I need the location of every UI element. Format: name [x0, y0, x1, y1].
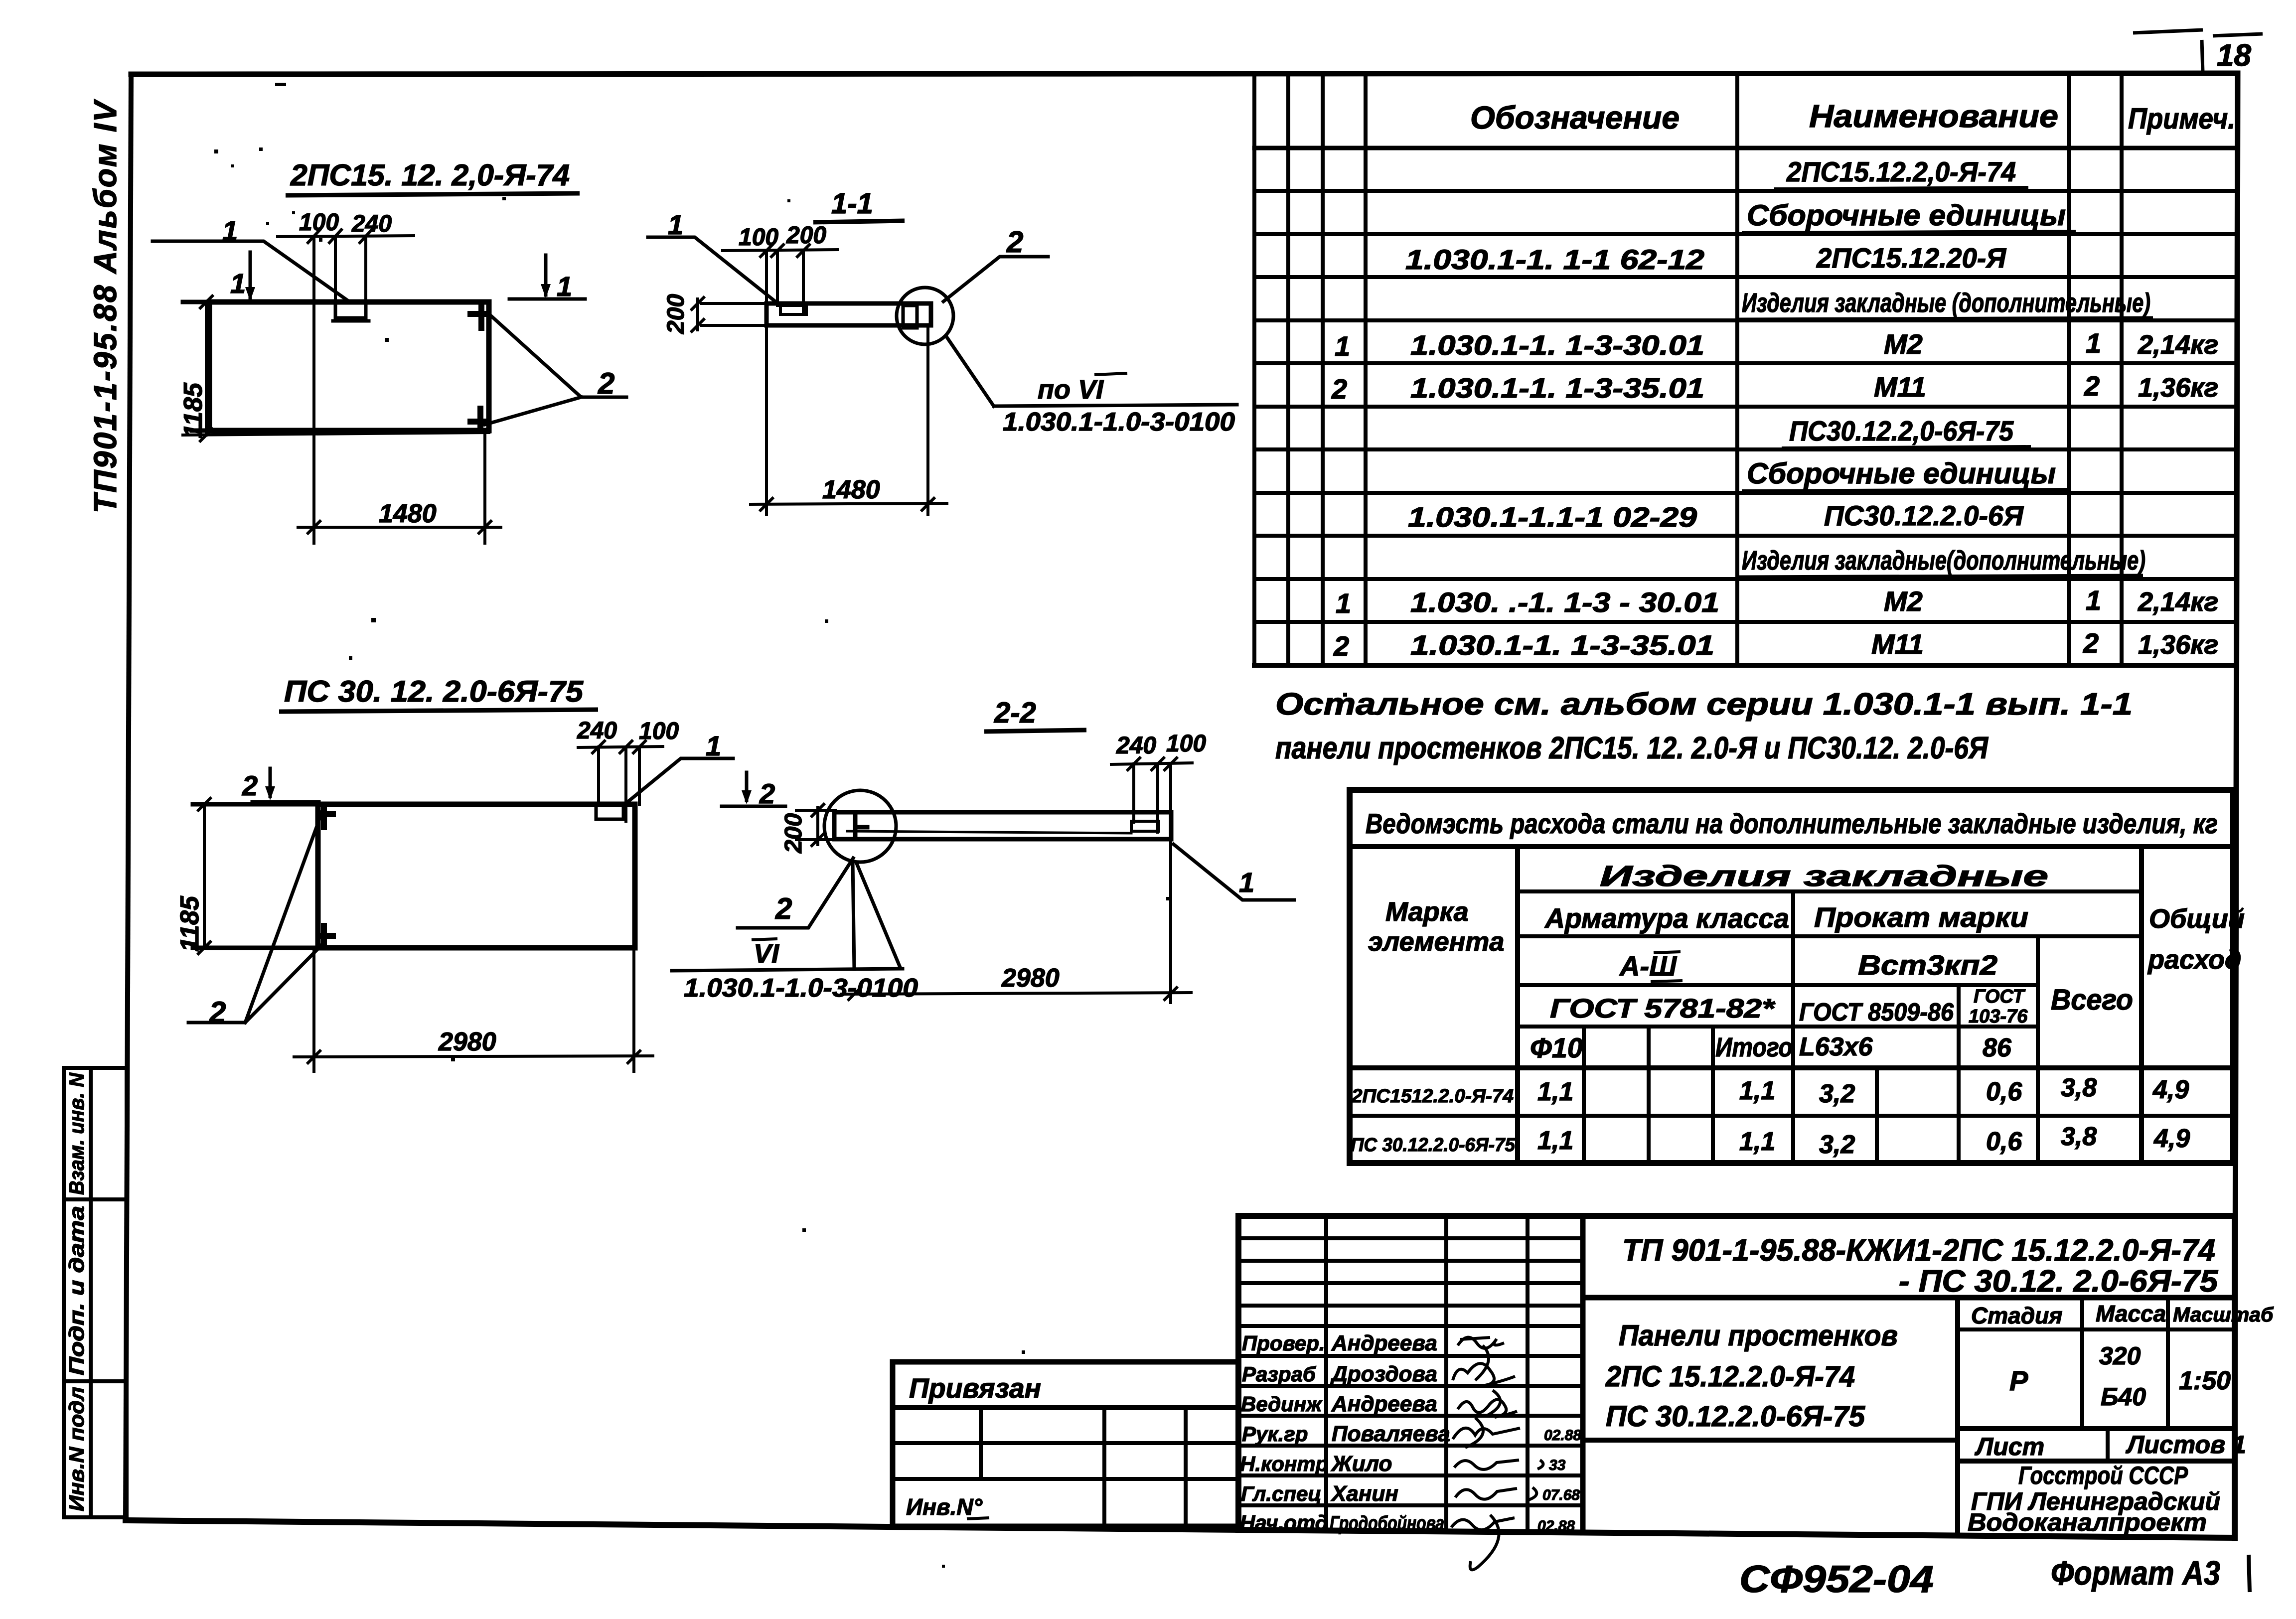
svg-text:1: 1 — [222, 215, 238, 246]
svg-text:Подп. и дата: Подп. и дата — [65, 1206, 88, 1375]
left margin stamp strip — [64, 1068, 127, 1517]
svg-text:Взам. инв. N: Взам. инв. N — [65, 1072, 88, 1195]
svg-text:1.030.1-1.0-3-0100: 1.030.1-1.0-3-0100 — [1003, 408, 1235, 437]
slab outline — [766, 303, 931, 325]
svg-text:Масштаб: Масштаб — [2173, 1303, 2274, 1326]
svg-text:1.030.1-1.0-3-0100: 1.030.1-1.0-3-0100 — [684, 974, 918, 1003]
leader to item 2 — [738, 858, 853, 928]
svg-text:1: 1 — [668, 209, 683, 240]
svg-text:Н.контр: Н.контр — [1240, 1452, 1328, 1475]
svg-text:240: 240 — [1116, 733, 1156, 759]
svg-text:Сборочные единицы: Сборочные единицы — [1747, 199, 2066, 232]
svg-text:1: 1 — [1239, 867, 1254, 898]
svg-text:М11: М11 — [1874, 371, 1926, 403]
svg-text:L63x6: L63x6 — [1799, 1032, 1873, 1061]
privyazan outer — [893, 1362, 1238, 1526]
svg-text:Обозначение: Обозначение — [1470, 100, 1680, 136]
svg-text:100: 100 — [739, 224, 778, 251]
svg-text:Листов 1: Листов 1 — [2126, 1431, 2246, 1459]
designation box — [1580, 1216, 1586, 1533]
svg-text:1,1: 1,1 — [1739, 1076, 1775, 1105]
svg-text:103-76: 103-76 — [1969, 1006, 2028, 1027]
svg-text:А-Ш: А-Ш — [1619, 950, 1677, 982]
svg-text:1: 1 — [230, 268, 246, 299]
svg-text:ПС 30.12.2.0-6Я-75: ПС 30.12.2.0-6Я-75 — [1606, 1400, 1865, 1433]
leader to item 2 — [943, 257, 1048, 301]
svg-text:02.88: 02.88 — [1544, 1427, 1581, 1444]
leader to item 1 — [648, 237, 778, 304]
panel outline — [209, 302, 489, 431]
svg-text:М2: М2 — [1884, 586, 1923, 617]
svg-text:1: 1 — [557, 271, 572, 302]
svg-text:1.030.1-1. 1-3-35.01: 1.030.1-1. 1-3-35.01 — [1410, 372, 1704, 404]
svg-text:100: 100 — [1166, 731, 1206, 757]
svg-text:ПС 30.12.2.0-6Я-75: ПС 30.12.2.0-6Я-75 — [1351, 1135, 1516, 1156]
svg-text:расход: расход — [2147, 945, 2241, 975]
embed plate M11 end — [903, 305, 917, 328]
svg-text:СФ952-04: СФ952-04 — [1739, 1558, 1934, 1601]
svg-text:Лист: Лист — [1975, 1433, 2044, 1461]
svg-text:3,2: 3,2 — [1819, 1130, 1855, 1159]
svg-text:Изделия закладные (дополнитель: Изделия закладные (дополнительные) — [1742, 288, 2150, 318]
svg-text:Общий: Общий — [2149, 904, 2245, 934]
svg-text:ГОСТ: ГОСТ — [1974, 986, 2025, 1007]
svg-text:Прокат марки: Прокат марки — [1814, 901, 2028, 933]
vedomost rows — [1518, 889, 2142, 893]
svg-text:Инв.N подл: Инв.N подл — [65, 1387, 88, 1511]
svg-text:Вединж: Вединж — [1241, 1392, 1323, 1416]
section arrow 2 top — [252, 768, 319, 802]
svg-text:2: 2 — [1333, 630, 1349, 662]
svg-text:2: 2 — [242, 770, 258, 801]
svg-text:4,9: 4,9 — [2152, 1075, 2189, 1104]
dim 200 left — [692, 297, 766, 331]
svg-text:2: 2 — [2083, 627, 2099, 659]
detail ref underline — [994, 405, 1237, 406]
svg-text:1-1: 1-1 — [831, 187, 873, 220]
svg-text:1.030.1-1. 1-3-35.01: 1.030.1-1. 1-3-35.01 — [1410, 629, 1714, 661]
svg-text:Инв.N°: Инв.N° — [906, 1494, 983, 1520]
svg-text:1480: 1480 — [379, 499, 437, 528]
embed plate M2 notch — [1131, 821, 1159, 831]
svg-text:Остальное см. альбом серии: Остальное см. альбом серии 1.030.1-1 вып… — [1275, 687, 2133, 722]
dim 100/200 top — [723, 245, 837, 314]
dim 1480 bottom — [751, 325, 947, 514]
svg-text:VI: VI — [754, 939, 779, 969]
svg-text:200: 200 — [663, 294, 689, 334]
svg-text:1:50: 1:50 — [2179, 1366, 2231, 1395]
embed plate M2 notch — [596, 805, 623, 819]
svg-text:Р: Р — [2009, 1365, 2028, 1396]
svg-text:Арматура класса: Арматура класса — [1544, 902, 1789, 934]
svg-text:Панели простенков: Панели простенков — [1619, 1320, 1898, 1352]
slab outline — [834, 812, 1171, 839]
svg-text:18: 18 — [2217, 38, 2251, 73]
dim 1185 left — [183, 296, 489, 441]
svg-text:Ханин: Ханин — [1330, 1481, 1398, 1506]
section arrow 1 right — [509, 255, 585, 299]
svg-text:3,8: 3,8 — [2061, 1122, 2097, 1151]
svg-text:0,6: 0,6 — [1986, 1127, 2022, 1156]
leader to item 2 — [485, 314, 626, 425]
svg-text:Ф10: Ф10 — [1530, 1032, 1583, 1063]
dim 240/100 top — [578, 741, 663, 821]
leader to item 1 — [153, 241, 348, 301]
svg-text:Рук.гр: Рук.гр — [1242, 1422, 1308, 1446]
svg-text:240: 240 — [351, 211, 392, 237]
svg-text:2: 2 — [2084, 370, 2100, 402]
svg-text:100: 100 — [639, 718, 679, 744]
svg-text:Примеч.: Примеч. — [2128, 103, 2235, 135]
stadia masa masshtab — [2080, 1298, 2084, 1429]
svg-text:1: 1 — [2086, 327, 2101, 359]
svg-text:2ПС 15.12.2.0-Я-74: 2ПС 15.12.2.0-Я-74 — [1605, 1360, 1855, 1393]
svg-text:Госстрой СССР: Госстрой СССР — [2018, 1462, 2188, 1489]
svg-text:Разраб: Разраб — [1242, 1362, 1316, 1386]
scan specks — [214, 83, 1701, 1568]
svg-text:3,2: 3,2 — [1819, 1079, 1855, 1108]
detail circle — [824, 790, 896, 862]
svg-text:3,8: 3,8 — [2061, 1073, 2097, 1102]
svg-text:Масса: Масса — [2096, 1301, 2166, 1326]
section arrow 1 left — [215, 252, 272, 302]
svg-text:1,1: 1,1 — [1537, 1126, 1573, 1155]
svg-text:Изделия закладные: Изделия закладные — [1600, 860, 2048, 892]
leaders to detail VI — [853, 862, 900, 969]
svg-text:1185: 1185 — [175, 895, 204, 952]
svg-text:2: 2 — [759, 778, 775, 809]
svg-text:1,36кг: 1,36кг — [2138, 373, 2218, 403]
leaders to item 2 — [188, 812, 323, 1023]
svg-text:1: 1 — [2086, 585, 2101, 616]
embed mark M11 bottom left corner — [319, 926, 333, 946]
embed plate M2 notch — [335, 303, 366, 318]
svg-text:ПС30.12.2,0-6Я-75: ПС30.12.2,0-6Я-75 — [1789, 415, 2014, 446]
panel outline — [318, 804, 635, 948]
svg-text:1.030.1-1. 1-1 62-12: 1.030.1-1. 1-1 62-12 — [1405, 244, 1704, 275]
svg-text:Провер.: Провер. — [1242, 1331, 1325, 1355]
name box divider — [1955, 1298, 1960, 1536]
svg-text:ТП901-1-95.88 Альбом IV: ТП901-1-95.88 Альбом IV — [87, 99, 123, 513]
svg-text:Всего: Всего — [2051, 984, 2133, 1016]
section arrow 2 — [722, 772, 785, 806]
svg-text:М11: М11 — [1871, 628, 1924, 660]
svg-text:2980: 2980 — [438, 1028, 496, 1056]
svg-text:1.030.1-1.1-1 02-29: 1.030.1-1.1-1 02-29 — [1408, 501, 1697, 533]
dim 200 left — [796, 804, 835, 846]
detail circle — [897, 288, 953, 344]
svg-text:2980: 2980 — [1001, 964, 1060, 993]
svg-text:0,6: 0,6 — [1986, 1077, 2022, 1106]
svg-text:ПС30.12.2.0-6Я: ПС30.12.2.0-6Я — [1824, 500, 2024, 531]
leader to item 1 — [626, 758, 733, 803]
svg-text:Сборочные единицы: Сборочные единицы — [1747, 457, 2056, 490]
svg-text:1185: 1185 — [179, 382, 208, 439]
signature rows — [1238, 1354, 1583, 1358]
svg-text:Итого: Итого — [1715, 1032, 1793, 1062]
svg-text:320: 320 — [2099, 1342, 2141, 1370]
svg-text:240: 240 — [577, 718, 617, 744]
svg-text:1.030. .-1. 1-3 - 30.01: 1.030. .-1. 1-3 - 30.01 — [1410, 587, 1719, 618]
svg-text:- ПС 30.12. 2.0-6Я-75: - ПС 30.12. 2.0-6Я-75 — [1899, 1264, 2219, 1299]
svg-text:Андреева: Андреева — [1331, 1331, 1437, 1355]
svg-text:Стадия: Стадия — [1971, 1303, 2062, 1328]
svg-text:86: 86 — [1983, 1033, 2012, 1062]
spec table grid — [1254, 75, 2236, 665]
svg-text:2ПС1512.2.0-Я-74: 2ПС1512.2.0-Я-74 — [1351, 1086, 1514, 1107]
svg-text:2ПС15.12.2,0-Я-74: 2ПС15.12.2,0-Я-74 — [1786, 156, 2016, 187]
svg-text:1: 1 — [706, 730, 721, 761]
title block outer — [1238, 1216, 2235, 1538]
svg-text:2,14кг: 2,14кг — [2138, 330, 2218, 360]
embed plate M2 notch — [780, 305, 806, 314]
svg-text:2: 2 — [209, 996, 226, 1029]
svg-text:100: 100 — [299, 209, 339, 236]
svg-text:200: 200 — [786, 222, 826, 249]
svg-text:2: 2 — [775, 892, 792, 925]
vedomost columns — [1515, 847, 1520, 1163]
svg-text:Дроздова: Дроздова — [1330, 1362, 1437, 1386]
embed mark M11 bottom right corner — [470, 409, 485, 429]
svg-text:Поваляева: Поваляева — [1332, 1422, 1450, 1446]
dim 1185 left — [198, 798, 210, 954]
svg-text:200: 200 — [780, 813, 807, 854]
svg-text:Б40: Б40 — [2101, 1383, 2146, 1411]
svg-text:2,14кг: 2,14кг — [2138, 587, 2218, 617]
svg-text:элемента: элемента — [1368, 927, 1504, 957]
dim 100/240 top — [278, 230, 414, 543]
svg-text:2: 2 — [1331, 373, 1347, 405]
svg-text:Привязан: Привязан — [909, 1372, 1041, 1404]
svg-text:1: 1 — [1335, 330, 1350, 362]
svg-text:Андреева: Андреева — [1331, 1392, 1437, 1416]
signature columns — [1324, 1216, 1328, 1531]
embed mark M11 top left corner — [319, 806, 333, 827]
svg-text:ПС 30. 12. 2.0-6Я-75: ПС 30. 12. 2.0-6Я-75 — [284, 675, 584, 708]
small top rows — [1238, 1236, 1583, 1240]
dim 2980 bottom — [294, 948, 653, 1071]
vedomost caption bottom — [1350, 844, 2233, 849]
svg-text:Наименование: Наименование — [1809, 98, 2058, 134]
svg-text:Формат А3: Формат А3 — [2051, 1554, 2220, 1592]
svg-text:07.68: 07.68 — [1542, 1487, 1580, 1503]
svg-text:Ведомэсть расхода стали на до: Ведомэсть расхода стали на дополнительны… — [1366, 808, 2218, 839]
svg-text:ТП 901-1-95.88-КЖИ1-2ПС 15.12.: ТП 901-1-95.88-КЖИ1-2ПС 15.12.2.0-Я-74 — [1622, 1233, 2215, 1268]
dim 2980 bottom — [841, 842, 1191, 1003]
svg-text:1.030.1-1. 1-3-30.01: 1.030.1-1. 1-3-30.01 — [1410, 329, 1704, 361]
embed mark M11 top right corner — [470, 305, 484, 328]
vedomost outer box — [1350, 790, 2233, 1163]
svg-text:2: 2 — [1006, 225, 1023, 259]
svg-text:33: 33 — [1549, 1457, 1566, 1473]
svg-text:1: 1 — [1336, 588, 1351, 619]
svg-text:Гродобойнова: Гродобойнова — [1330, 1512, 1444, 1534]
svg-text:1480: 1480 — [822, 475, 880, 504]
svg-text:Нач.отд: Нач.отд — [1240, 1511, 1328, 1534]
embed mark M11 in circle — [855, 815, 867, 839]
svg-text:по VI: по VI — [1038, 375, 1104, 405]
dim 1480 bottom — [298, 431, 501, 543]
detail ref underline — [672, 969, 903, 971]
svg-text:2: 2 — [598, 367, 614, 400]
svg-text:Марка: Марка — [1385, 897, 1469, 927]
svg-text:Гл.спец: Гл.спец — [1241, 1482, 1321, 1505]
svg-text:Вст3кп2: Вст3кп2 — [1858, 949, 1997, 981]
dim 240/100 top right — [1111, 758, 1192, 832]
svg-text:1,1: 1,1 — [1739, 1127, 1775, 1156]
svg-text:панели простенков 2ПС15. 12.: панели простенков 2ПС15. 12. 2.0-Я и ПС3… — [1275, 731, 1989, 765]
svg-text:02.88: 02.88 — [1537, 1518, 1575, 1534]
svg-text:2-2: 2-2 — [994, 697, 1036, 729]
svg-text:Изделия закладные(дополнительн: Изделия закладные(дополнительные) — [1742, 546, 2145, 576]
svg-text:1,36кг: 1,36кг — [2138, 630, 2218, 660]
svg-text:4,9: 4,9 — [2153, 1124, 2190, 1153]
svg-text:2ПС15.12.20-Я: 2ПС15.12.20-Я — [1816, 242, 2006, 274]
leader to detail VI — [946, 336, 994, 406]
svg-text:2ПС15. 12. 2,0-Я-74: 2ПС15. 12. 2,0-Я-74 — [290, 158, 570, 192]
svg-text:1,1: 1,1 — [1537, 1077, 1573, 1106]
svg-text:ГОСТ 5781-82*: ГОСТ 5781-82* — [1550, 994, 1776, 1024]
svg-text:М2: М2 — [1884, 328, 1923, 360]
svg-text:ГОСТ 8509-86: ГОСТ 8509-86 — [1799, 998, 1954, 1026]
svg-text:Жило: Жило — [1331, 1452, 1392, 1476]
signature squiggles — [1451, 1337, 1543, 1570]
svg-text:Водоканалпроект: Водоканалпроект — [1968, 1508, 2207, 1536]
